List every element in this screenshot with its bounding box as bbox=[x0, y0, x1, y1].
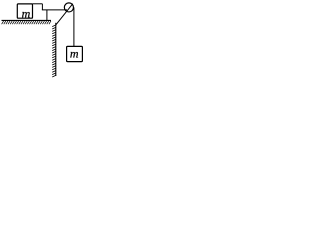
block A on table bbox=[17, 4, 32, 18]
string A: horizontal run to pulley bbox=[42, 9, 67, 11]
pulley bbox=[64, 3, 73, 12]
svg-text:m: m bbox=[22, 7, 31, 21]
pulley bracket bbox=[56, 4, 73, 25]
string A: vertical step down bbox=[41, 4, 43, 10]
svg-text:m: m bbox=[70, 47, 79, 61]
support post at table edge bbox=[46, 10, 48, 21]
hanging block B bbox=[67, 46, 83, 61]
wall hatching bbox=[52, 25, 56, 77]
table vertical edge (wall) bbox=[55, 23, 57, 76]
string A: from block top corner rightward bbox=[33, 3, 43, 5]
table top surface bbox=[2, 19, 52, 21]
string B: over pulley down to hanging block bbox=[73, 7, 75, 46]
table top hatching bbox=[2, 21, 51, 24]
